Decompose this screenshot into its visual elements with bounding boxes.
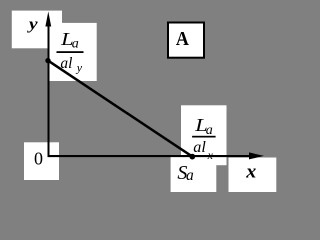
fraction box La/alx xyxy=(181,105,227,165)
y-axis line xyxy=(48,20,50,157)
svg-text:y: y xyxy=(76,60,83,74)
svg-text:A: A xyxy=(176,28,189,50)
node dot on x-axis xyxy=(189,154,195,160)
diagonal line xyxy=(48,61,192,157)
label-box 0 xyxy=(24,142,59,180)
svg-text:a: a xyxy=(72,37,79,52)
label-box x xyxy=(229,158,277,193)
svg-text:0: 0 xyxy=(34,149,43,169)
label-box Sa xyxy=(171,157,217,193)
svg-text:y: y xyxy=(27,16,38,33)
label-box y xyxy=(12,11,62,49)
svg-text:x: x xyxy=(245,162,257,183)
svg-text:a: a xyxy=(186,167,194,184)
node dot on y-axis xyxy=(45,58,50,63)
y-axis arrowhead xyxy=(45,12,51,27)
x-axis line xyxy=(48,155,257,157)
fraction box La/aly xyxy=(50,23,97,81)
x-axis arrowhead xyxy=(249,152,264,159)
svg-text:al: al xyxy=(193,139,206,156)
fraction bar (right fraction) xyxy=(192,136,216,138)
fraction bar (left fraction) xyxy=(57,51,84,53)
svg-text:x: x xyxy=(207,148,214,162)
box A xyxy=(168,23,204,58)
